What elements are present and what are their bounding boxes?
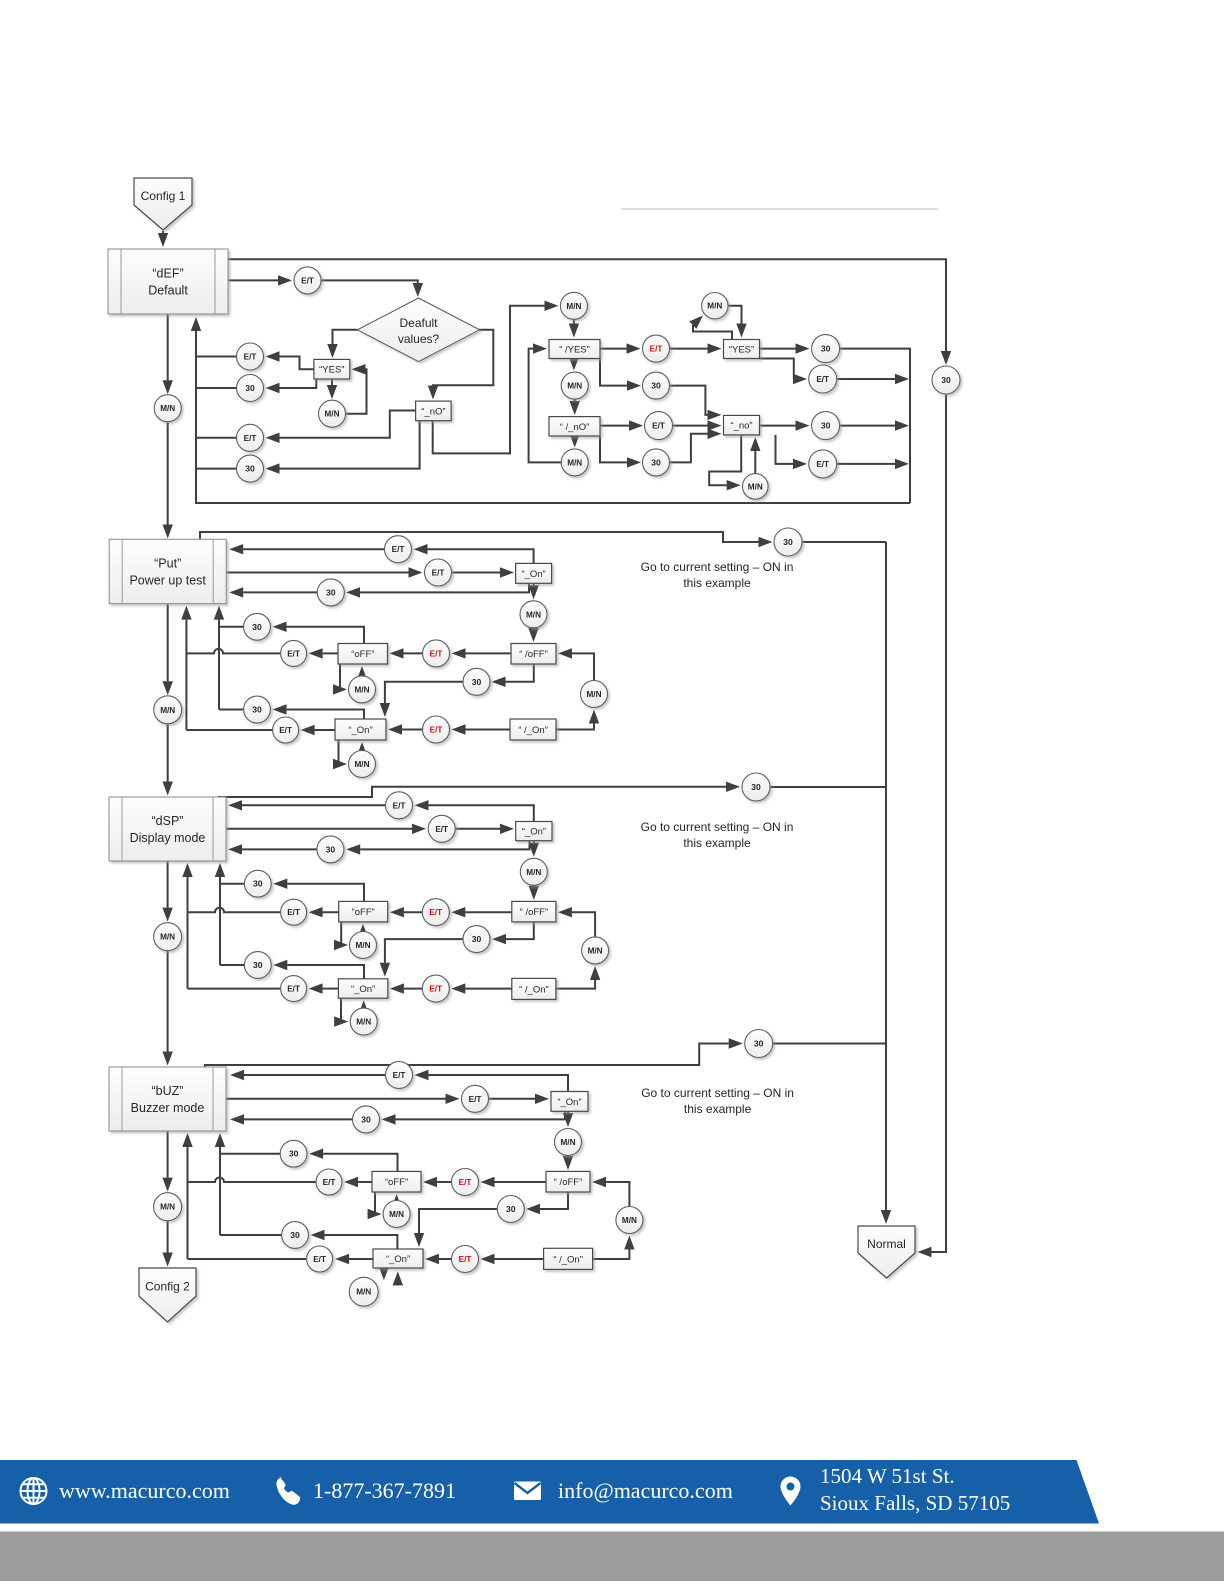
box “_On”: [551, 1092, 588, 1112]
svg-text:30: 30: [472, 677, 482, 687]
svg-text:E/T: E/T: [301, 276, 314, 285]
node 30: [244, 696, 271, 723]
svg-text:30: 30: [751, 782, 761, 792]
box “_On”: [338, 979, 387, 998]
svg-text:“bUZ”: “bUZ”: [152, 1084, 184, 1098]
footer grey band: [0, 1532, 1224, 1582]
wire _On to 30: [273, 704, 365, 719]
wire M/N to /oFF: [529, 885, 539, 900]
wire 30 to _no: [670, 429, 722, 463]
wire M/N to oFF: [358, 924, 368, 938]
svg-text:E/T: E/T: [393, 1071, 406, 1080]
svg-text:Go to current setting – ON in: Go to current setting – ON in: [641, 1086, 794, 1100]
wire _On to M/N: [334, 998, 348, 1027]
svg-text:M/N: M/N: [160, 933, 175, 942]
svg-text:M/N: M/N: [354, 760, 369, 769]
wire dSP to E/T: [226, 824, 426, 834]
box “_On”: [516, 563, 552, 583]
svg-text:“_no”: “_no”: [730, 421, 752, 432]
svg-text:M/N: M/N: [355, 941, 370, 950]
wire _nO to E/T: [266, 411, 416, 444]
wire YES to E/T: [266, 351, 314, 369]
svg-text:1-877-367-7891: 1-877-367-7891: [313, 1478, 456, 1503]
wire _On to M/N: [529, 841, 539, 857]
wire oFF to 30: [273, 622, 365, 644]
node E/T: [643, 335, 670, 362]
wire _no to 30: [760, 420, 810, 430]
svg-text:M/N: M/N: [567, 382, 582, 391]
wire _no to E/T: [776, 435, 808, 469]
wire 30 to trunk: [770, 786, 886, 788]
svg-text:E/T: E/T: [430, 726, 443, 735]
wire oFF to M/N: [334, 922, 348, 950]
node E/T: [452, 1246, 479, 1273]
wire E/T to Put: [229, 544, 384, 554]
wire M/N to _On: [357, 742, 367, 756]
svg-text:E/T: E/T: [432, 569, 445, 578]
wire _On to E/T: [415, 1070, 569, 1092]
svg-text:30: 30: [754, 1039, 764, 1049]
svg-text:E/T: E/T: [816, 375, 829, 384]
note: go to current setting: [641, 1086, 794, 1116]
node 30: [497, 1196, 524, 1223]
node E/T: [316, 1169, 342, 1195]
wire M/N to Put: [163, 422, 173, 538]
wire /_On to E/T red: [451, 983, 512, 993]
wire /_On to M/N: [556, 710, 599, 730]
wire E/T to loop: [837, 374, 909, 384]
wire oFF to E/T: [309, 648, 338, 658]
wire E/T to oFF: [423, 1177, 452, 1187]
svg-text:E/T: E/T: [430, 649, 443, 658]
node 30: [237, 375, 264, 402]
svg-text:30: 30: [289, 1149, 299, 1159]
wire _On to E/T: [301, 725, 335, 735]
icon phone: [276, 1476, 300, 1504]
node M/N: [561, 372, 588, 399]
svg-text:E/T: E/T: [816, 460, 829, 469]
wire E/T to bus A: [186, 649, 280, 654]
wire Config1 to dEF: [158, 231, 168, 247]
note: go to current setting: [641, 820, 794, 850]
svg-text:“YES”: “YES”: [319, 365, 344, 376]
svg-text:“YES”: “YES”: [729, 345, 754, 356]
wire _On to 30: [273, 960, 364, 979]
svg-text:30: 30: [821, 421, 831, 431]
wire /YES to 30: [600, 359, 641, 391]
wire /oFF to 30: [492, 922, 534, 944]
node E/T: [281, 640, 307, 666]
wire E/T to bus A: [188, 908, 281, 912]
node E/T: [281, 976, 307, 1002]
svg-text:30: 30: [651, 381, 661, 391]
wire 30 to bus: [196, 468, 237, 470]
svg-text:E/T: E/T: [244, 353, 257, 362]
node E/T: [428, 815, 455, 842]
node M/N: [520, 858, 547, 885]
svg-text:“_On”: “_On”: [386, 1254, 410, 1265]
node E/T: [307, 1246, 333, 1272]
svg-text:30: 30: [253, 879, 263, 889]
wire 30 to _On lower: [380, 939, 463, 977]
svg-text:M/N: M/N: [324, 410, 339, 419]
wire YES to 30: [760, 343, 810, 353]
note: go to current setting: [641, 560, 794, 590]
wire _On to E/T: [309, 983, 339, 993]
wire bus B to bUZ: [215, 1133, 225, 1235]
wire _On to M/N: [528, 583, 538, 599]
svg-text:“dSP”: “dSP”: [152, 814, 184, 828]
svg-text:“_On”: “_On”: [557, 1097, 581, 1108]
svg-text:E/T: E/T: [459, 1255, 472, 1264]
node E/T: [385, 536, 412, 563]
wire bus A to Put: [181, 606, 191, 730]
svg-text:E/T: E/T: [279, 726, 292, 735]
svg-text:M/N: M/N: [356, 1288, 371, 1297]
node E/T: [294, 267, 321, 294]
svg-text:Go to current setting – ON in: Go to current setting – ON in: [641, 560, 794, 574]
svg-text:M/N: M/N: [356, 1018, 371, 1027]
node 30: [463, 926, 490, 953]
node M/N: [154, 923, 182, 951]
node 30: [244, 870, 271, 897]
node E/T: [422, 975, 449, 1002]
wire E/T to _no: [673, 420, 722, 430]
node M/N: [383, 1201, 410, 1228]
wire /YES to M/N: [569, 357, 579, 371]
wire M/N to bUZ: [162, 951, 172, 1066]
wire bUZ to E/T: [226, 1094, 460, 1104]
wire 30 to bus B: [220, 1153, 280, 1155]
svg-text:30: 30: [326, 587, 336, 597]
wire 30 to trunk: [773, 1043, 886, 1045]
svg-text:M/N: M/N: [566, 302, 581, 311]
svg-text:E/T: E/T: [287, 908, 300, 917]
box “ /_On”: [510, 719, 556, 740]
wire M/N to /oFF: [558, 648, 594, 680]
svg-text:“_On”: “_On”: [522, 827, 546, 838]
svg-text:info@macurco.com: info@macurco.com: [558, 1478, 733, 1503]
svg-text:30: 30: [326, 844, 336, 854]
node 30: [353, 1106, 380, 1133]
wire _On to 30: [382, 1111, 566, 1124]
box “ /_On”: [544, 1248, 593, 1269]
icon globe: [21, 1478, 47, 1504]
node M/N: [154, 696, 182, 724]
wire M/N to Config2: [162, 1221, 172, 1267]
wire 30 to Normal: [918, 394, 947, 1257]
wire E/T to _On: [455, 824, 514, 834]
node M/N: [555, 1129, 582, 1156]
node M/N: [702, 293, 728, 319]
svg-text:M/N: M/N: [567, 458, 582, 467]
wire /_nO to E/T: [600, 420, 643, 430]
terminator Normal: [858, 1226, 915, 1278]
wire dSP to M/N: [162, 861, 172, 922]
svg-text:30: 30: [472, 934, 482, 944]
svg-text:Buzzer mode: Buzzer mode: [131, 1101, 205, 1115]
wire M/N to oFF: [391, 1194, 401, 1208]
svg-text:30: 30: [245, 464, 255, 474]
wire oFF to M/N: [333, 664, 347, 695]
wire 30 to bUZ: [230, 1114, 353, 1124]
svg-text:“oFF”: “oFF”: [351, 649, 374, 660]
wire _nO to M/N right: [433, 301, 559, 454]
box “_On”: [373, 1249, 423, 1268]
node M/N: [560, 292, 587, 319]
wire _On to M/N: [563, 1111, 573, 1127]
wire Put to 30: [200, 532, 773, 547]
wire YES loop to M/N: [689, 316, 732, 340]
svg-text:“ /_On”: “ /_On”: [553, 1254, 583, 1265]
wire E/T to _On: [452, 567, 515, 577]
svg-text:30: 30: [821, 344, 831, 354]
svg-text:E/T: E/T: [652, 422, 665, 431]
svg-text:values?: values?: [398, 332, 440, 346]
wire 30 to bus: [196, 387, 237, 389]
wire /YES to E/T red: [600, 343, 641, 353]
svg-text:M/N: M/N: [586, 690, 601, 699]
node E/T: [422, 899, 449, 926]
wire /_On to M/N: [593, 1236, 635, 1260]
wire E/T to _On: [425, 1254, 452, 1264]
box “ /oFF”: [512, 901, 556, 922]
svg-text:M/N: M/N: [160, 404, 175, 413]
wire E/T to bus A: [188, 988, 281, 990]
node E/T: [425, 559, 452, 586]
svg-text:“_On”: “_On”: [521, 569, 545, 580]
node E/T: [237, 343, 264, 370]
wire E/T to bUZ: [230, 1070, 386, 1080]
terminator Config 2: [139, 1268, 196, 1322]
node 30: [643, 372, 670, 399]
wire M/N to dSP: [163, 724, 173, 796]
wire E/T to dSP: [228, 800, 386, 810]
wire /_On to E/T red: [481, 1254, 544, 1264]
wire M/N to YES: [346, 364, 367, 414]
icon location pin: [781, 1477, 801, 1506]
svg-text:Config 1: Config 1: [141, 189, 186, 203]
node M/N: [319, 400, 346, 427]
svg-text:M/N: M/N: [526, 868, 541, 877]
node 30: [745, 1030, 773, 1058]
node E/T: [273, 717, 299, 743]
svg-text:“ /_nO”: “ /_nO”: [560, 422, 590, 433]
svg-text:30: 30: [253, 960, 263, 970]
wire _On to M/N: [379, 1266, 389, 1280]
svg-text:“ /YES”: “ /YES”: [559, 345, 590, 356]
box “ /oFF”: [546, 1171, 590, 1192]
icon envelope: [514, 1482, 541, 1501]
node 30: [317, 836, 344, 863]
node M/N: [350, 1008, 377, 1035]
node 30: [463, 668, 490, 695]
wire diamond to _nO: [428, 330, 494, 400]
wire 30 to _On lower: [380, 682, 463, 717]
wire M/N to /oFF: [558, 907, 595, 937]
wire E/T to bus A: [188, 1178, 317, 1183]
node M/N: [581, 681, 608, 708]
svg-text:M/N: M/N: [160, 1203, 175, 1212]
process bUZ Buzzer mode: [109, 1067, 226, 1131]
wire 30 to _no: [670, 386, 722, 421]
wire 30 to bus B: [220, 883, 244, 885]
process Put Power up test: [109, 539, 226, 603]
svg-text:30: 30: [252, 705, 262, 715]
node 30: [812, 335, 840, 363]
svg-text:E/T: E/T: [429, 985, 442, 994]
node E/T: [809, 450, 837, 478]
svg-text:Power up test: Power up test: [129, 573, 206, 587]
node E/T: [281, 899, 307, 925]
wire Put to E/T: [226, 567, 422, 577]
svg-text:Sioux Falls, SD 57105: Sioux Falls, SD 57105: [820, 1491, 1010, 1515]
node E/T: [423, 716, 450, 743]
box “ /YES”: [549, 340, 600, 359]
svg-text:E/T: E/T: [469, 1095, 482, 1104]
process dSP Display mode: [109, 797, 226, 861]
box “YES”: [724, 340, 760, 359]
wire /_nO to M/N: [570, 434, 580, 448]
svg-text:30: 30: [506, 1204, 516, 1214]
node 30: [280, 1140, 307, 1167]
node 30: [244, 613, 271, 640]
wire M/N to YES: [728, 306, 747, 338]
node 30: [932, 366, 960, 394]
node 30: [812, 412, 840, 440]
svg-text:1504 W 51st St.: 1504 W 51st St.: [820, 1464, 955, 1488]
svg-text:M/N: M/N: [622, 1216, 637, 1225]
svg-text:“dEF”: “dEF”: [152, 267, 183, 281]
node E/T: [423, 640, 450, 667]
wire _On to 30: [346, 583, 529, 597]
wire 30 to dSP: [228, 844, 318, 854]
node M/N: [349, 1277, 378, 1306]
terminator Config 1: [134, 178, 192, 230]
svg-text:www.macurco.com: www.macurco.com: [59, 1478, 230, 1503]
node M/N: [349, 751, 376, 778]
wire _On to E/T: [415, 800, 534, 821]
node 30: [317, 579, 344, 606]
svg-text:“ /oFF”: “ /oFF”: [554, 1177, 583, 1188]
wire dEF to E/T: [228, 275, 292, 285]
decision Deafult values: [358, 298, 480, 362]
svg-text:“_On”: “_On”: [351, 984, 375, 995]
wire E/T to oFF: [390, 907, 422, 917]
node E/T: [452, 1169, 479, 1196]
svg-text:M/N: M/N: [160, 706, 175, 715]
svg-text:this example: this example: [683, 576, 751, 590]
wire dEF to M/N: [163, 314, 173, 394]
svg-text:30: 30: [361, 1114, 371, 1124]
box “_On”: [516, 822, 552, 841]
wire Put to M/N: [163, 604, 173, 696]
node M/N: [582, 937, 609, 964]
svg-text:E/T: E/T: [429, 908, 442, 917]
node M/N: [520, 601, 547, 628]
wire /oFF to E/T red: [451, 907, 512, 917]
wire trunk to Normal: [881, 542, 891, 1224]
box “_nO”: [416, 401, 452, 421]
wire M/N to _On: [393, 1271, 403, 1285]
wire bus A to dSP: [182, 863, 192, 989]
wire M/N to _On: [359, 1000, 369, 1014]
node E/T: [386, 792, 413, 819]
svg-text:E/T: E/T: [393, 801, 406, 810]
wire _On to 30: [346, 841, 529, 855]
wire 30 to bus B: [219, 626, 244, 628]
wire E/T to YES: [670, 343, 722, 353]
box “_no”: [724, 415, 760, 435]
wire 30 to loop: [840, 420, 909, 430]
svg-text:M/N: M/N: [588, 946, 603, 955]
wire /oFF to E/T red: [481, 1177, 547, 1187]
wire YES to M/N: [327, 379, 337, 399]
wire M/N to oFF: [357, 666, 367, 680]
svg-text:30: 30: [290, 1230, 300, 1240]
svg-text:E/T: E/T: [287, 985, 300, 994]
wire oFF to 30: [273, 879, 364, 902]
wire _nO to 30: [266, 421, 420, 474]
node M/N: [616, 1207, 643, 1234]
svg-text:30: 30: [941, 375, 951, 385]
wire 30 to bus B: [220, 964, 244, 966]
wire return bus to dEF: [191, 317, 910, 503]
box “oFF”: [339, 901, 388, 922]
svg-text:“ /_On”: “ /_On”: [518, 725, 548, 736]
node M/N: [349, 676, 376, 703]
footer blue band: [0, 1460, 1099, 1524]
wire oFF to E/T: [344, 1177, 372, 1187]
svg-text:“_On”: “_On”: [348, 725, 372, 736]
wire M/N to /YES: [569, 319, 579, 337]
node 30: [742, 773, 770, 801]
wire YES to E/T: [760, 359, 808, 385]
svg-text:M/N: M/N: [707, 302, 722, 311]
svg-text:“ /_On”: “ /_On”: [519, 984, 549, 995]
box “oFF”: [372, 1171, 421, 1192]
svg-text:E/T: E/T: [287, 649, 300, 658]
wire bUZ to 30: [205, 1038, 743, 1067]
svg-text:this example: this example: [683, 836, 751, 850]
box “YES”: [314, 359, 350, 379]
wire E/T to oFF: [390, 648, 423, 658]
process dEF Default: [108, 249, 228, 314]
svg-text:M/N: M/N: [526, 610, 541, 619]
node E/T: [462, 1085, 489, 1112]
wire M/N to /_nO: [570, 399, 580, 415]
svg-text:Display mode: Display mode: [130, 831, 206, 845]
node 30: [282, 1222, 309, 1249]
box “_On”: [335, 719, 386, 740]
wire bus B to dSP: [215, 863, 225, 965]
wire 30 to _On lower: [414, 1209, 498, 1247]
svg-text:E/T: E/T: [323, 1178, 336, 1187]
box “ /oFF”: [511, 644, 556, 665]
wire 30 to bus B: [219, 709, 244, 711]
wire 30 to Put: [229, 587, 318, 597]
wire _On to E/T: [335, 1254, 373, 1264]
wire _no to M/N: [709, 435, 741, 491]
wire E/T to loop: [837, 459, 909, 469]
wire E/T to bus A: [186, 729, 272, 731]
wire bUZ to M/N: [162, 1131, 172, 1192]
wire E/T to _On: [388, 724, 423, 734]
wire /_On to E/T red: [452, 724, 511, 734]
svg-text:E/T: E/T: [650, 345, 663, 354]
wire /_nO to 30: [600, 436, 641, 468]
wire M/N to _no: [750, 437, 760, 474]
